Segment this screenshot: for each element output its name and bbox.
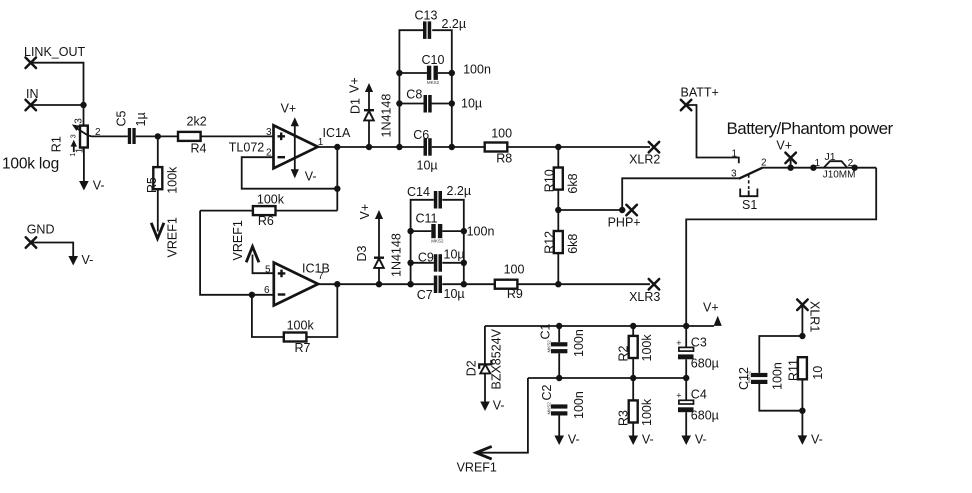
- wire GND to V-: [31, 243, 73, 257]
- wire IC1B output: [318, 283, 464, 285]
- svg-text:10µ: 10µ: [461, 97, 482, 111]
- capacitor C9: [418, 248, 465, 272]
- wire to PHP+: [558, 209, 622, 211]
- ground V- at GND: [68, 253, 93, 267]
- svg-text:V-: V-: [642, 433, 654, 447]
- resistor R10: [542, 147, 580, 231]
- wire C12 bottom: [759, 384, 802, 411]
- resistor R7 feedback: [252, 284, 337, 355]
- wire VREF rail to arrow: [480, 378, 528, 453]
- svg-text:V+: V+: [358, 204, 372, 220]
- node R11 bottom: [799, 408, 805, 414]
- svg-text:XLR1: XLR1: [808, 301, 822, 332]
- wire to C12: [759, 336, 802, 373]
- svg-text:6k8: 6k8: [566, 173, 580, 193]
- svg-text:MKS2: MKS2: [546, 340, 551, 353]
- svg-text:C2: C2: [540, 384, 554, 400]
- svg-text:V-: V-: [811, 433, 823, 447]
- svg-text:100n: 100n: [771, 362, 785, 390]
- svg-text:R7: R7: [295, 341, 311, 355]
- svg-text:3: 3: [731, 168, 737, 179]
- node bank left on output line: [396, 144, 402, 150]
- resistor R3: [616, 378, 654, 436]
- svg-text:TL072: TL072: [229, 141, 264, 155]
- svg-text:C8: C8: [406, 88, 422, 102]
- diode D1 1N4148: [347, 77, 393, 147]
- svg-text:V-: V-: [305, 170, 317, 184]
- node input junction: [80, 102, 86, 108]
- wire S1 pin2 to right: [762, 167, 876, 169]
- wire R6 to IC1B pin6: [200, 211, 274, 295]
- svg-text:3: 3: [74, 118, 85, 124]
- node PHP+ junction: [555, 207, 561, 213]
- capacitor C2: [540, 384, 586, 436]
- node D3 junction: [376, 281, 382, 287]
- svg-text:V+: V+: [776, 139, 792, 153]
- wire upper bank left rail: [399, 30, 423, 147]
- svg-text:3: 3: [266, 127, 272, 138]
- potentiometer R1: [50, 118, 102, 157]
- resistor R6: [200, 193, 337, 229]
- wire R11 bottom to V-: [801, 379, 803, 436]
- svg-text:100k: 100k: [257, 193, 285, 207]
- svg-text:6: 6: [264, 285, 270, 296]
- svg-text:S1: S1: [742, 198, 757, 212]
- node C9 left: [407, 260, 413, 266]
- net arrow VREF1 bottom: [457, 446, 497, 474]
- svg-text:R6: R6: [258, 214, 274, 228]
- wire node to R1: [83, 105, 85, 126]
- node IC1A output: [334, 144, 340, 150]
- svg-text:100k: 100k: [640, 334, 654, 362]
- node IC1B output: [334, 281, 340, 287]
- svg-text:R5: R5: [145, 177, 159, 193]
- wire C10 row: [399, 72, 451, 74]
- svg-text:C7: C7: [417, 288, 433, 302]
- node C3 top: [683, 323, 689, 329]
- terminal BATT+: [681, 86, 719, 111]
- svg-text:10µ: 10µ: [444, 248, 465, 262]
- ground V- under R1: [79, 179, 104, 193]
- svg-text:IC1B: IC1B: [302, 262, 330, 276]
- net flag V+ on wire: [776, 139, 796, 168]
- svg-text:C12: C12: [737, 367, 751, 390]
- svg-text:VREF1: VREF1: [166, 217, 180, 257]
- terminal LINK_OUT: [24, 45, 85, 68]
- wire R4 to IC1A pin3: [201, 135, 274, 137]
- capacitor C4 680u: [676, 378, 719, 436]
- node C11 left: [407, 228, 413, 234]
- wire output down to R6: [336, 147, 338, 211]
- op-amp IC1A: [229, 125, 351, 168]
- ground V- under C4: [681, 433, 706, 447]
- svg-text:100n: 100n: [467, 225, 495, 239]
- zener diode D2 BZX8524V: [464, 326, 503, 402]
- node R10 top junction: [555, 144, 561, 150]
- svg-text:C4: C4: [691, 388, 707, 402]
- resistor R5: [145, 136, 179, 193]
- node C3 bottom: [683, 375, 689, 381]
- wire R8 to XLR2: [507, 146, 650, 148]
- node C11 right: [461, 228, 467, 234]
- wire R1 wiper to C5: [88, 135, 128, 136]
- node XLR1 junction: [799, 333, 805, 339]
- svg-text:MKS2: MKS2: [427, 80, 440, 85]
- net arrow V+ at rail end: [703, 301, 722, 326]
- terminal GND: [26, 223, 55, 248]
- svg-text:100n: 100n: [572, 329, 586, 357]
- svg-text:C5: C5: [115, 110, 129, 126]
- wire bank to R8: [452, 146, 485, 148]
- svg-text:+: +: [676, 338, 681, 348]
- terminal XLR3: [629, 279, 660, 304]
- svg-text:10µ: 10µ: [444, 287, 465, 301]
- node IC1B pin6 junction: [249, 292, 255, 298]
- svg-text:LINK_OUT: LINK_OUT: [24, 45, 85, 59]
- wire loop to V+ rail: [686, 168, 876, 326]
- jumper J1 J10MM: [810, 151, 858, 181]
- ground V- under R11: [798, 433, 823, 447]
- node PHP+ branch: [619, 207, 625, 213]
- svg-text:1: 1: [70, 153, 77, 157]
- node C8 right: [449, 100, 455, 106]
- resistor R11: [787, 357, 826, 381]
- capacitor C12: [737, 362, 785, 390]
- svg-text:C13: C13: [415, 9, 438, 23]
- svg-text:1µ: 1µ: [134, 112, 148, 126]
- power V+ arrow IC1A: [281, 102, 299, 170]
- svg-text:V-: V-: [82, 253, 94, 267]
- svg-text:MKS2: MKS2: [431, 238, 444, 243]
- wire bank to R9: [464, 283, 495, 285]
- svg-text:V-: V-: [493, 399, 505, 413]
- svg-text:1N4148: 1N4148: [380, 94, 394, 138]
- svg-text:J1: J1: [825, 151, 836, 163]
- svg-text:1N4148: 1N4148: [390, 233, 404, 277]
- net arrow VREF1 at IC1B pin5: [231, 220, 259, 262]
- svg-text:2.2µ: 2.2µ: [442, 17, 467, 31]
- svg-text:Battery/Phantom power: Battery/Phantom power: [727, 119, 894, 138]
- svg-text:+: +: [676, 391, 681, 401]
- svg-text:100k: 100k: [640, 398, 654, 426]
- wire IC1A output: [318, 146, 452, 148]
- ground V- under D2: [480, 399, 504, 413]
- node lower bank left on line: [407, 281, 413, 287]
- svg-text:100k log: 100k log: [2, 156, 59, 173]
- svg-text:C10: C10: [422, 53, 445, 67]
- resistor R2: [616, 326, 654, 378]
- svg-text:C6: C6: [413, 128, 429, 142]
- svg-text:V+: V+: [281, 102, 297, 116]
- wire lower bank right rail: [442, 200, 464, 284]
- resistor R12: [542, 231, 580, 284]
- svg-text:R9: R9: [507, 287, 523, 301]
- wire R5 to VREF1: [157, 189, 159, 231]
- node lower bank right on line: [461, 281, 467, 287]
- svg-text:R8: R8: [496, 152, 512, 166]
- wire lower bank left rail: [411, 200, 434, 284]
- wire IN to node: [31, 104, 84, 106]
- diode D3 1N4148: [355, 204, 404, 284]
- node D1 junction: [366, 144, 372, 150]
- terminal PHP+: [608, 205, 641, 230]
- terminal XLR2: [629, 142, 660, 167]
- svg-text:2.2µ: 2.2µ: [447, 184, 472, 198]
- capacitor C11: [416, 212, 495, 244]
- svg-text:V-: V-: [93, 179, 105, 193]
- wire VREF mid rail: [528, 377, 686, 379]
- capacitor C1: [539, 323, 586, 378]
- wire XLR1 down: [801, 305, 803, 336]
- node V+ flag junction: [787, 165, 793, 171]
- wire PHP+ to S1 pin3: [622, 178, 739, 210]
- op-amp IC1B: [264, 262, 330, 306]
- svg-text:100n: 100n: [463, 63, 491, 77]
- svg-text:2: 2: [761, 157, 767, 168]
- capacitor C7: [417, 276, 465, 303]
- capacitor C14: [407, 184, 471, 209]
- svg-text:V+: V+: [703, 301, 719, 315]
- svg-text:1: 1: [815, 158, 821, 169]
- svg-text:10µ: 10µ: [417, 159, 438, 173]
- svg-text:680µ: 680µ: [691, 357, 719, 371]
- svg-text:V-: V-: [568, 433, 580, 447]
- net arrow VREF1 below R5: [151, 217, 179, 257]
- svg-text:PHP+: PHP+: [608, 216, 641, 230]
- svg-text:2: 2: [848, 158, 854, 169]
- svg-text:10: 10: [811, 366, 825, 380]
- wire R1 bottom to V-: [83, 148, 85, 182]
- svg-text:R3: R3: [616, 410, 630, 426]
- wire C8 row: [399, 103, 451, 105]
- svg-text:V+: V+: [347, 77, 361, 93]
- ground V- under R3: [628, 433, 653, 447]
- ground V- under C2: [554, 433, 579, 447]
- svg-text:100n: 100n: [572, 391, 586, 419]
- svg-text:D2: D2: [464, 360, 478, 376]
- node C1 top: [556, 323, 562, 329]
- svg-text:1: 1: [732, 149, 738, 160]
- capacitor C6: [413, 128, 437, 173]
- node C8 left: [396, 100, 402, 106]
- svg-text:R12: R12: [542, 231, 556, 254]
- svg-text:100: 100: [504, 262, 525, 276]
- wire C5 to R4: [136, 135, 178, 137]
- node R2 top: [630, 323, 636, 329]
- wire IC1B pin5: [253, 255, 274, 274]
- svg-text:VREF1: VREF1: [457, 461, 497, 475]
- svg-text:D3: D3: [355, 245, 369, 261]
- node R12 bottom junction: [555, 281, 561, 287]
- svg-text:R4: R4: [191, 142, 207, 156]
- capacitor C13: [415, 9, 467, 39]
- wire upper bank right rail: [432, 30, 452, 147]
- node C5/R5 junction: [155, 133, 161, 139]
- svg-text:XLR2: XLR2: [629, 152, 660, 166]
- svg-text:6k8: 6k8: [566, 234, 580, 254]
- svg-text:V-: V-: [695, 433, 707, 447]
- svg-text:100: 100: [491, 126, 512, 140]
- svg-text:7: 7: [318, 271, 324, 282]
- node feedback junction: [334, 186, 340, 192]
- capacitor C5: [115, 110, 149, 144]
- svg-text:R2: R2: [616, 345, 630, 361]
- svg-text:C14: C14: [407, 185, 430, 199]
- capacitor C8: [406, 88, 482, 113]
- svg-text:MKS2: MKS2: [546, 402, 551, 415]
- svg-text:D1: D1: [349, 98, 363, 114]
- svg-text:C1: C1: [539, 323, 553, 339]
- node C9 right: [461, 260, 467, 266]
- svg-text:VREF1: VREF1: [231, 220, 245, 260]
- resistor R8: [485, 126, 513, 165]
- terminal IN: [26, 87, 39, 110]
- wire BATT+ to S1 pin1: [686, 105, 739, 163]
- svg-text:C11: C11: [416, 212, 438, 226]
- svg-text:R10: R10: [542, 169, 556, 192]
- svg-text:C3: C3: [691, 336, 707, 350]
- power V- arrow IC1A: [291, 169, 317, 183]
- svg-text:IC1A: IC1A: [323, 126, 351, 140]
- node C10 right: [449, 70, 455, 76]
- svg-text:100k: 100k: [165, 166, 179, 194]
- wire C11 row: [411, 230, 464, 232]
- svg-text:BZX8524V: BZX8524V: [490, 328, 504, 389]
- wire IC1A pin2 feedback: [242, 157, 338, 189]
- terminal XLR1: [797, 300, 821, 333]
- resistor R4: [178, 115, 207, 156]
- wire V+ rail bottom network: [485, 325, 714, 327]
- svg-text:C9: C9: [418, 251, 434, 265]
- switch S1: [731, 149, 767, 213]
- svg-text:2k2: 2k2: [187, 115, 207, 129]
- svg-text:R11: R11: [787, 359, 801, 381]
- capacitor C10: [422, 53, 491, 85]
- resistor R9: [495, 262, 525, 301]
- node R2 bottom: [630, 375, 636, 381]
- svg-text:680µ: 680µ: [691, 409, 719, 423]
- svg-text:100k: 100k: [287, 319, 315, 333]
- svg-text:3: 3: [71, 134, 78, 138]
- wire LINK_OUT to node: [31, 63, 84, 105]
- capacitor C3 680u: [676, 326, 719, 378]
- svg-text:R1: R1: [50, 136, 64, 152]
- wire C9 row: [411, 262, 464, 264]
- svg-text:J10MM: J10MM: [823, 170, 856, 181]
- node bank right on output line: [449, 144, 455, 150]
- node C1 bottom VREF rail: [556, 375, 562, 381]
- svg-text:XLR3: XLR3: [629, 290, 660, 304]
- node C10 left: [396, 70, 402, 76]
- svg-text:GND: GND: [27, 223, 55, 237]
- svg-text:BATT+: BATT+: [681, 86, 719, 100]
- wire R9 to XLR3: [517, 283, 650, 285]
